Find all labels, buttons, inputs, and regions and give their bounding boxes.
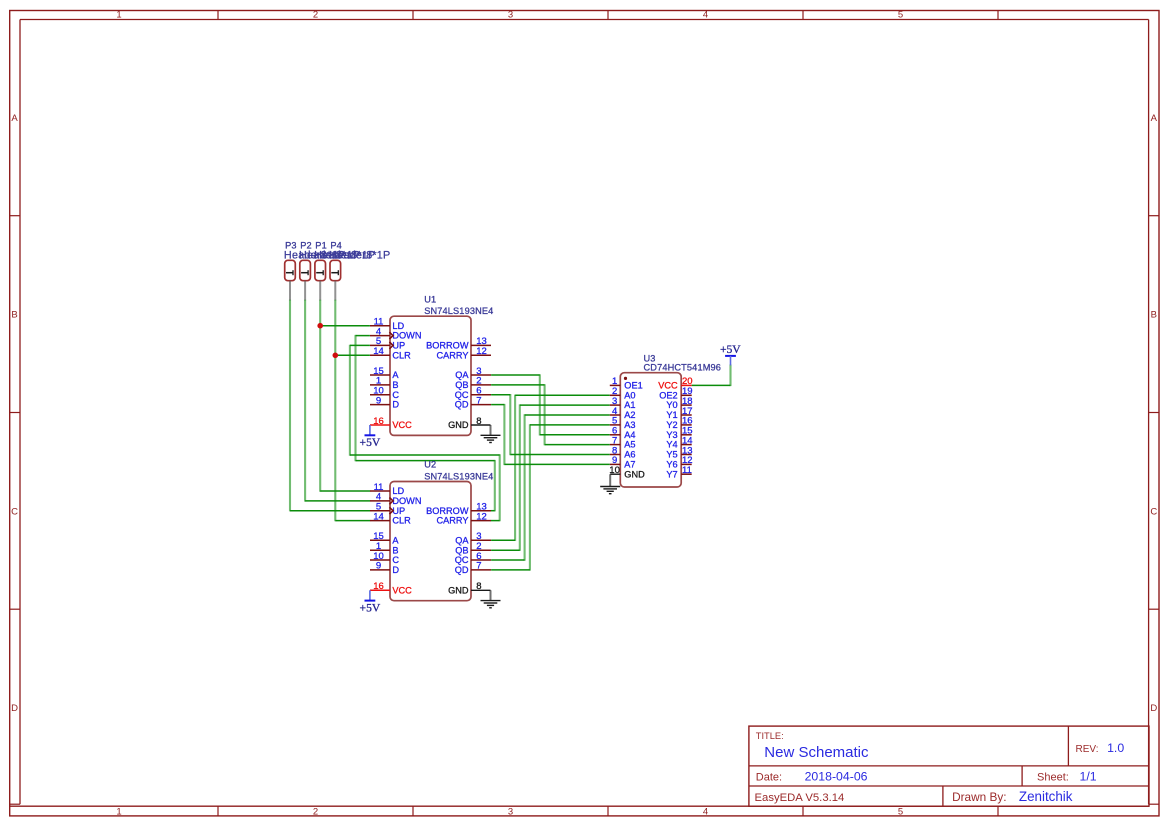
svg-text:16: 16 — [373, 416, 384, 427]
connector P4 Header8*1P — [329, 240, 390, 300]
svg-text:A7: A7 — [624, 460, 635, 470]
svg-text:A4: A4 — [624, 430, 635, 440]
svg-text:Y7: Y7 — [666, 469, 677, 479]
U1 pin 1 B — [370, 376, 399, 390]
connector P2 Header8*1P — [299, 240, 360, 300]
wire U2 QA to U3 A0 — [491, 395, 610, 541]
svg-text:D: D — [392, 565, 399, 575]
svg-text:8: 8 — [476, 416, 481, 427]
svg-text:VCC: VCC — [392, 420, 412, 430]
svg-text:1.0: 1.0 — [1107, 741, 1124, 755]
U3 pin 12 Y6 — [666, 455, 692, 469]
svg-text:14: 14 — [373, 511, 384, 522]
svg-text:GND: GND — [624, 469, 645, 479]
U3 pin 11 Y7 — [666, 465, 692, 479]
svg-text:Y2: Y2 — [666, 420, 677, 430]
svg-text:QB: QB — [455, 545, 468, 555]
frame row letters left — [11, 113, 18, 714]
svg-text:3: 3 — [508, 806, 513, 817]
svg-text:DOWN: DOWN — [392, 331, 421, 341]
svg-text:C: C — [11, 506, 18, 517]
svg-text:C: C — [392, 390, 399, 400]
U3 pin 4 A2 — [610, 406, 636, 420]
U3 pin 19 OE2 — [659, 386, 692, 400]
IC U2 body — [390, 482, 471, 601]
svg-text:1: 1 — [116, 806, 121, 817]
ground U2 — [481, 601, 501, 608]
wire U2 QD to U3 A3 — [491, 424, 610, 570]
svg-text:A3: A3 — [624, 420, 635, 430]
svg-text:A6: A6 — [624, 450, 635, 460]
svg-text:D: D — [11, 703, 18, 714]
U2 pin 13 BORROW — [426, 502, 491, 516]
svg-text:A2: A2 — [624, 410, 635, 420]
svg-text:Y6: Y6 — [666, 460, 677, 470]
svg-text:9: 9 — [376, 561, 381, 572]
U2 pin 16 VCC — [370, 581, 412, 595]
svg-text:Sheet:: Sheet: — [1037, 771, 1069, 783]
svg-text:A: A — [392, 370, 399, 380]
svg-text:Y0: Y0 — [666, 400, 677, 410]
U1 pin 7 QD — [455, 395, 491, 409]
svg-text:UP: UP — [392, 341, 405, 351]
svg-text:QC: QC — [455, 390, 469, 400]
title block EasyEDA version — [755, 792, 845, 804]
U1 pin 3 QA — [455, 366, 491, 380]
svg-text:D: D — [392, 400, 399, 410]
svg-text:9: 9 — [376, 395, 381, 406]
U1 pin 16 VCC — [370, 416, 412, 430]
U3 pin 14 Y4 — [666, 435, 692, 449]
svg-text:B: B — [11, 310, 17, 321]
U3 pin 6 A4 — [610, 426, 636, 440]
svg-text:5: 5 — [898, 10, 903, 21]
wire P1 branch to U1 LD — [320, 325, 370, 327]
wire U1 QD to U3 A7 — [491, 404, 610, 465]
U1 pin 14 CLR — [370, 346, 411, 360]
title block title value — [764, 744, 869, 761]
svg-text:QD: QD — [455, 565, 469, 575]
wire U1 QB to U3 A5 — [491, 384, 610, 445]
wire U1 UP to U2 CARRY — [350, 345, 500, 522]
svg-text:QB: QB — [455, 380, 468, 390]
wire U1 QA to U3 A4 — [491, 374, 610, 435]
power flag +5V U3 — [720, 343, 741, 365]
ground U1 — [481, 435, 501, 442]
svg-text:TITLE:: TITLE: — [756, 731, 784, 741]
frame column ticks top and bottom — [218, 11, 998, 816]
title block REV — [1076, 741, 1125, 755]
U2 pin 14 CLR — [370, 511, 411, 525]
U3 pin 9 A7 — [610, 455, 636, 469]
U3 pin 3 A1 — [610, 396, 636, 410]
U2 pin 4 DOWN — [370, 492, 421, 506]
svg-text:GND: GND — [448, 585, 469, 595]
U3 pin 20 VCC — [658, 376, 692, 390]
svg-text:REV:: REV: — [1076, 744, 1099, 755]
U3 pin 2 A0 — [610, 386, 636, 400]
U1 pin 6 QC — [455, 386, 491, 400]
U2 pin 9 D — [370, 561, 399, 575]
svg-text:11: 11 — [682, 465, 692, 476]
U2 pin 1 B — [370, 541, 399, 555]
svg-text:CLR: CLR — [392, 350, 411, 360]
svg-text:C: C — [1150, 506, 1157, 517]
U3 pin 1 OE1 — [610, 376, 643, 390]
svg-text:Y5: Y5 — [666, 450, 677, 460]
svg-text:4: 4 — [703, 806, 708, 817]
U3 pin 16 Y2 — [666, 416, 692, 430]
U1 pin 5 UP — [370, 336, 405, 350]
svg-text:Drawn By:: Drawn By: — [952, 790, 1006, 804]
frame row ticks left and right — [10, 216, 1159, 610]
svg-text:A5: A5 — [624, 440, 635, 450]
svg-text:OE1: OE1 — [624, 381, 642, 391]
title block Sheet — [1037, 769, 1097, 783]
svg-text:QA: QA — [455, 370, 469, 380]
junction P1/U1 LD — [317, 323, 323, 329]
wire U1 QC to U3 A6 — [491, 394, 610, 455]
title block TITLE label — [756, 731, 784, 741]
IC U1 designator — [424, 294, 493, 316]
svg-text:CARRY: CARRY — [437, 516, 469, 526]
U3 pin 5 A3 — [610, 416, 636, 430]
svg-text:12: 12 — [476, 346, 487, 357]
wire U1 DOWN to U2 BORROW — [356, 335, 495, 512]
svg-text:A1: A1 — [624, 400, 635, 410]
svg-text:LD: LD — [392, 321, 404, 331]
svg-text:3: 3 — [508, 10, 513, 21]
U2 pin 12 CARRY — [437, 511, 492, 525]
svg-text:UP: UP — [392, 506, 405, 516]
U3 pin 13 Y5 — [666, 445, 692, 459]
power flag +5V U2 — [360, 590, 381, 614]
svg-text:CARRY: CARRY — [437, 350, 469, 360]
frame column numbers bottom — [116, 806, 903, 817]
svg-text:BORROW: BORROW — [426, 506, 469, 516]
U2 pin 5 UP — [370, 502, 405, 516]
svg-text:SN74LS193NE4: SN74LS193NE4 — [424, 306, 493, 316]
U3 pin 18 Y0 — [666, 396, 692, 410]
svg-text:4: 4 — [703, 10, 708, 21]
wire P4 to U2 CLR — [335, 300, 370, 522]
svg-text:BORROW: BORROW — [426, 341, 469, 351]
svg-text:OE2: OE2 — [659, 390, 677, 400]
U1 pin 15 A — [370, 366, 399, 380]
svg-text:2018-04-06: 2018-04-06 — [805, 769, 868, 783]
wire P1 to U2 LD — [320, 300, 370, 492]
svg-text:VCC: VCC — [658, 381, 678, 391]
IC U3 designator — [644, 354, 722, 373]
svg-text:EasyEDA V5.3.14: EasyEDA V5.3.14 — [755, 792, 845, 804]
wire P3 to U2 UP — [290, 300, 370, 512]
wire U2 QB to U3 A1 — [491, 404, 610, 551]
U2 pin 11 LD — [370, 482, 405, 496]
svg-text:Y4: Y4 — [666, 440, 677, 450]
svg-text:1: 1 — [116, 10, 121, 21]
ground U3 — [600, 487, 620, 494]
svg-text:8: 8 — [476, 581, 481, 592]
U1 pin 8 GND — [448, 416, 490, 436]
U1 pin 4 DOWN — [370, 326, 421, 340]
svg-text:A: A — [1151, 113, 1158, 124]
svg-text:B: B — [392, 380, 398, 390]
U2 pin 10 C — [370, 551, 399, 565]
IC U3 body — [620, 373, 681, 487]
U1 pin 2 QB — [455, 376, 491, 390]
svg-text:A: A — [11, 113, 18, 124]
svg-text:+5V: +5V — [360, 602, 381, 615]
svg-text:LD: LD — [392, 486, 404, 496]
U2 pin 7 QD — [455, 561, 491, 575]
svg-text:New Schematic: New Schematic — [764, 744, 869, 761]
U3 pin 8 A6 — [610, 445, 636, 459]
svg-text:16: 16 — [373, 581, 384, 592]
svg-text:D: D — [1150, 703, 1157, 714]
IC U1 body — [390, 316, 471, 435]
svg-text:B: B — [1151, 310, 1157, 321]
svg-text:CLR: CLR — [392, 516, 411, 526]
svg-text:GND: GND — [448, 420, 469, 430]
svg-text:QC: QC — [455, 555, 469, 565]
svg-text:1/1: 1/1 — [1080, 769, 1097, 783]
wire +5V to U3 VCC — [692, 365, 731, 387]
svg-text:U1: U1 — [424, 294, 436, 304]
U3 pin 10 GND — [609, 465, 645, 487]
svg-text:10: 10 — [609, 465, 620, 476]
svg-text:QA: QA — [455, 535, 469, 545]
svg-text:U2: U2 — [424, 460, 436, 470]
IC U2 designator — [424, 460, 493, 482]
svg-text:14: 14 — [373, 346, 384, 357]
svg-text:12: 12 — [476, 511, 487, 522]
U2 pin 6 QC — [455, 551, 491, 565]
svg-text:7: 7 — [476, 561, 481, 572]
svg-text:2: 2 — [313, 10, 318, 21]
connector P1 Header8*1P — [314, 240, 375, 300]
svg-text:A0: A0 — [624, 390, 635, 400]
wire P4 branch to U1 CLR — [335, 354, 370, 356]
title block border — [749, 726, 1149, 806]
frame row letters right — [1150, 113, 1157, 714]
U2 pin 2 QB — [455, 541, 491, 555]
title block Drawn By — [952, 789, 1073, 804]
wire P2 to U2 DOWN — [305, 300, 370, 502]
U1 pin 13 BORROW — [426, 336, 491, 350]
svg-text:QD: QD — [455, 400, 469, 410]
U3 pin 7 A5 — [610, 435, 636, 449]
svg-text:VCC: VCC — [392, 585, 412, 595]
power flag +5V U1 — [360, 425, 381, 449]
svg-text:A: A — [392, 535, 399, 545]
svg-text:2: 2 — [313, 806, 318, 817]
svg-text:+5V: +5V — [360, 436, 381, 449]
svg-text:+5V: +5V — [720, 343, 741, 356]
svg-text:B: B — [392, 545, 398, 555]
title block Date — [756, 769, 868, 783]
svg-text:5: 5 — [898, 806, 903, 817]
svg-text:Y1: Y1 — [666, 410, 677, 420]
U3 pin 15 Y3 — [666, 426, 692, 440]
U1 pin 11 LD — [370, 317, 405, 331]
svg-text:DOWN: DOWN — [392, 496, 421, 506]
U1 pin 10 C — [370, 386, 399, 400]
svg-text:Y3: Y3 — [666, 430, 677, 440]
connector P3 Header8*1P — [284, 240, 345, 300]
junction P4/U1 CLR — [333, 353, 339, 359]
U3 pin 17 Y1 — [666, 406, 692, 420]
U2 pin 3 QA — [455, 531, 491, 545]
U1 pin 12 CARRY — [437, 346, 492, 360]
U1 pin 9 D — [370, 395, 399, 409]
svg-text:Date:: Date: — [756, 771, 782, 783]
frame column numbers top — [116, 10, 903, 21]
svg-text:Zenitchik: Zenitchik — [1019, 789, 1073, 804]
svg-text:7: 7 — [476, 395, 481, 406]
svg-text:SN74LS193NE4: SN74LS193NE4 — [424, 471, 493, 481]
wire U2 QC to U3 A2 — [491, 414, 610, 560]
U2 pin 8 GND — [448, 581, 490, 601]
svg-text:C: C — [392, 555, 399, 565]
U2 pin 15 A — [370, 531, 399, 545]
svg-text:CD74HCT541M96: CD74HCT541M96 — [644, 362, 722, 372]
